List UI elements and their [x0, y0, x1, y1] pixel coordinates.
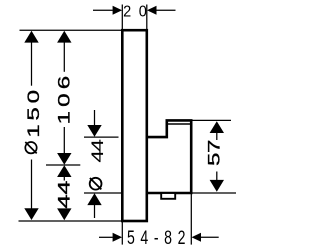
dim 57: lower line segment [216, 172, 218, 182]
clip below valve body [161, 193, 175, 199]
dim 44: arrow up [57, 165, 71, 177]
top extension line right (20 dim) [146, 5, 148, 30]
svg-text:44: 44 [88, 139, 107, 162]
svg-text:57: 57 [205, 140, 224, 166]
dim 57: upper line segment [216, 132, 218, 140]
dim 54-82: left tail [99, 236, 113, 238]
top extension line left (20 dim) [121, 5, 123, 30]
dim 106: lower line segment [63, 127, 65, 153]
dim dia44: arrow up (outside, below bottom ext) [87, 193, 101, 205]
extension line 54-82 right [190, 193, 192, 245]
dim dia150: upper line segment [31, 42, 33, 86]
svg-text:150: 150 [24, 86, 43, 138]
label dia150 symbol [25, 142, 36, 153]
extension line 57 top [191, 119, 231, 121]
extension line dia44 top [84, 136, 119, 138]
extension line 57 bottom [192, 192, 236, 194]
arrow 20 left [113, 6, 123, 15]
dimension line 20 right tail [156, 9, 175, 11]
valve body collar line [168, 123, 190, 125]
svg-text:54-82: 54-82 [127, 227, 191, 249]
dim 44: upper line segment [63, 177, 65, 181]
extension line plate top (dia150/106) [20, 29, 123, 31]
dim 54-82: right tail [201, 236, 219, 238]
extension line plate bottom (dia150/44) [19, 220, 123, 222]
dim 44: lower line segment [63, 208, 65, 211]
arrow 20 right [147, 6, 157, 15]
extension line dia44 bottom [84, 192, 123, 194]
svg-text:106: 106 [55, 72, 74, 125]
dim 44: arrow down [57, 208, 71, 220]
label dia44 symbol [90, 178, 102, 190]
dim 57: arrow up [210, 121, 224, 133]
extension line mid (106/44 boundary) [46, 164, 80, 166]
dim 106: arrow up [57, 31, 71, 43]
dim dia44: bottom tail [94, 205, 96, 218]
plate (escutcheon side view) [122, 30, 147, 221]
dim 57: arrow down [210, 180, 224, 192]
svg-text:20: 20 [123, 3, 154, 21]
dim dia44: arrow down (outside, above top ext) [87, 125, 101, 137]
extension line 54-82 left [121, 221, 123, 245]
dim dia150: arrow up [24, 31, 38, 43]
dim 106: arrow down [57, 153, 71, 165]
dim dia150: arrow down [24, 208, 38, 220]
valve body outline [147, 120, 191, 193]
dim 54-82: arrow left [192, 233, 202, 242]
dim 106: upper line segment [63, 42, 65, 72]
dim dia44: top tail [94, 110, 96, 125]
dim 54-82: arrow right [113, 233, 123, 242]
svg-text:44: 44 [54, 181, 74, 209]
dim dia150: lower line segment [31, 160, 33, 210]
dimension line 20 left tail [93, 9, 113, 11]
